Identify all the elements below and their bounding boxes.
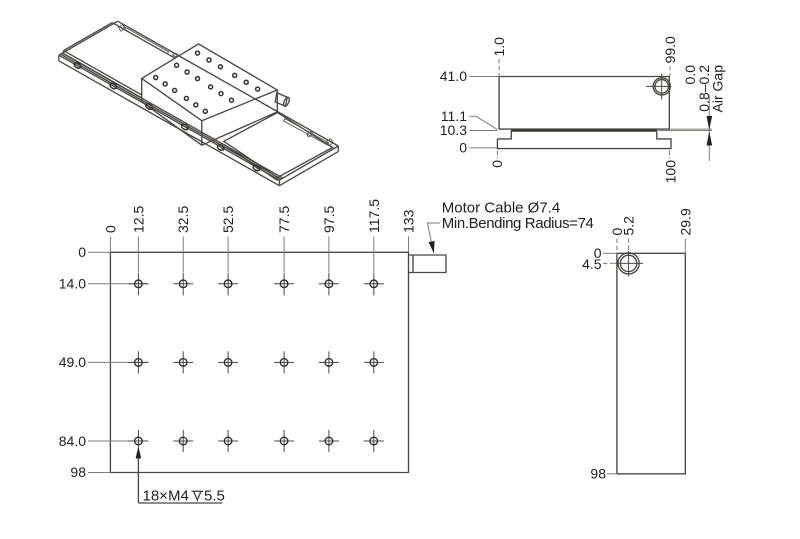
rail screw 4 <box>181 123 190 131</box>
cable circle inner <box>620 255 636 271</box>
svg-text:41.0: 41.0 <box>440 68 467 84</box>
plan hole col 32.5 row 14 <box>182 273 184 296</box>
forcer top hole c97.5 r14 <box>244 80 248 84</box>
right plate corner notch <box>326 139 333 146</box>
forcer top hole c52.5 r84 <box>173 88 177 92</box>
svg-text:1.0: 1.0 <box>491 37 507 57</box>
svg-text:0: 0 <box>489 160 505 168</box>
rail: right end top edge <box>279 146 338 180</box>
plan hole col 52.5 row 14 <box>227 273 229 296</box>
forcer top hole c52.5 r49 <box>196 77 200 81</box>
plan hole col 117.5 row 49 <box>373 351 375 373</box>
svg-text:29.9: 29.9 <box>677 208 693 235</box>
forcer top hole c117.5 r49 <box>230 98 234 102</box>
plan hole col 97.5 row 14 <box>328 273 330 296</box>
forcer top hole c32.5 r14 <box>207 58 211 62</box>
svg-text:52.5: 52.5 <box>220 206 236 233</box>
svg-text:0: 0 <box>102 225 118 233</box>
forcer top hole c32.5 r84 <box>163 82 167 86</box>
right cover plate corner vertical <box>277 178 279 181</box>
left plate corner vertical <box>63 51 65 54</box>
svg-text:98: 98 <box>590 466 606 482</box>
plan hole col 97.5 row 84 <box>328 430 330 452</box>
plan hole col 117.5 row 84 <box>373 430 375 452</box>
plan hole col 52.5 row 84 <box>227 430 229 452</box>
svg-text:77.5: 77.5 <box>276 206 292 233</box>
plan hole col 97.5 row 49 <box>328 351 330 373</box>
cable exit tab <box>409 255 447 273</box>
cable cross-section double circle <box>653 78 670 95</box>
plan hole col 32.5 row 84 <box>182 430 184 452</box>
left cover plate front thickness edge <box>64 54 142 98</box>
plan hole col 52.5 row 49 <box>227 351 229 373</box>
forcer top hole c117.5 r84 <box>203 109 207 113</box>
18xM4 depth 5.5 annotation <box>136 446 142 458</box>
magnet top surface thick line <box>511 129 657 132</box>
svg-text:5.2: 5.2 <box>621 216 637 236</box>
svg-text:5.5: 5.5 <box>204 487 225 504</box>
rail: left end front vertical <box>58 55 60 61</box>
forcer rectangle <box>499 77 669 130</box>
rail: left end top edge <box>59 21 118 55</box>
cable leader arrow <box>429 241 435 254</box>
svg-text:12.5: 12.5 <box>130 206 146 233</box>
svg-text:133: 133 <box>401 209 417 233</box>
rail: right end front vertical <box>278 180 280 186</box>
svg-text:100: 100 <box>663 160 679 184</box>
cable crosshair v <box>628 251 630 276</box>
cable tab inner line <box>412 255 414 273</box>
plan hole col 77.5 row 14 <box>283 273 285 296</box>
plan hole col 77.5 row 49 <box>283 351 285 373</box>
plan hole col 32.5 row 49 <box>182 351 184 373</box>
svg-text:97.5: 97.5 <box>321 206 337 233</box>
forcer outline plan <box>110 252 408 472</box>
rail screw 2 <box>109 82 118 90</box>
plan hole col 12.5 row 49 <box>137 351 139 373</box>
plan hole col 12.5 row 84 <box>137 430 139 452</box>
end view <box>582 208 693 482</box>
forcer block top front-left edge <box>142 78 202 120</box>
forcer top hole c12.5 r14 <box>196 51 200 55</box>
rail: back top edge <box>118 21 339 146</box>
svg-text:0: 0 <box>459 140 467 156</box>
air gap arrow upper <box>707 116 713 130</box>
svg-text:84.0: 84.0 <box>59 433 86 449</box>
svg-text:0: 0 <box>78 244 86 260</box>
magnet track profile <box>497 131 671 149</box>
svg-text:18×M4: 18×M4 <box>143 487 189 504</box>
guide rail strip line 1 <box>61 54 282 179</box>
cable leader line <box>427 223 440 253</box>
forcer top edge notch <box>173 53 179 57</box>
svg-text:99.0: 99.0 <box>662 36 678 63</box>
svg-text:98: 98 <box>70 464 86 480</box>
left cover plate left edge <box>64 23 113 51</box>
svg-text:117.5: 117.5 <box>366 199 382 233</box>
plan hole col 12.5 row 14 <box>137 273 139 296</box>
rail: right end bottom edge <box>279 152 338 186</box>
side elevation view <box>440 36 726 183</box>
forcer block silhouette <box>142 44 278 145</box>
forcer top hole c117.5 r14 <box>256 87 260 91</box>
forcer block front corner vertical <box>201 121 203 146</box>
cable crosshair h <box>615 262 643 264</box>
svg-text:10.3: 10.3 <box>440 122 467 138</box>
forcer top hole c32.5 r49 <box>185 70 189 74</box>
left cover plate back edge <box>112 23 175 59</box>
svg-text:14.0: 14.0 <box>59 276 86 292</box>
air gap annotation <box>670 128 712 130</box>
forcer block top front-right edge <box>202 90 277 121</box>
left plate corner notch <box>118 25 125 32</box>
plan hole col 77.5 row 84 <box>283 430 285 452</box>
rail screw 5 <box>216 144 225 152</box>
plan hole col 117.5 row 14 <box>373 273 375 296</box>
isometric 3D view of linear motor stage <box>59 21 339 186</box>
rail screw 1 <box>73 62 82 70</box>
rail screw 6 <box>252 164 261 172</box>
leader 11.1 <box>470 116 498 129</box>
left cover plate front top edge <box>64 51 142 95</box>
rail screw 3 <box>145 103 154 111</box>
rail: right back vertical <box>337 146 339 152</box>
plan view of forcer <box>59 199 594 505</box>
left plate clamp slot <box>123 27 169 54</box>
air gap arrow lower <box>707 131 713 145</box>
cable stub cylinder <box>275 93 287 107</box>
right plate clamp slot <box>283 119 329 146</box>
right cover plate front thickness edge <box>224 144 278 180</box>
forcer top hole c97.5 r84 <box>194 103 198 107</box>
cable grommet outer circle <box>618 253 639 274</box>
forcer top hole c97.5 r49 <box>219 92 223 96</box>
forcer top hole c77.5 r84 <box>184 96 188 100</box>
forcer top hole c77.5 r14 <box>233 73 237 77</box>
right plate mid notch <box>307 131 313 137</box>
svg-text:Air Gap: Air Gap <box>710 65 726 113</box>
svg-text:49.0: 49.0 <box>59 354 86 370</box>
forcer top hole c77.5 r49 <box>209 85 213 89</box>
forcer top hole c52.5 r14 <box>218 65 222 69</box>
right cover plate top face <box>224 113 333 178</box>
svg-text:32.5: 32.5 <box>175 206 191 233</box>
svg-text:Min.Bending Radius=74: Min.Bending Radius=74 <box>442 215 594 232</box>
end view outline <box>617 253 685 473</box>
forcer top hole c12.5 r49 <box>175 63 179 67</box>
svg-text:4.5: 4.5 <box>582 256 602 272</box>
guide rail strip line 2 <box>62 53 283 178</box>
forcer top hole c12.5 r84 <box>154 76 158 80</box>
svg-text:Motor Cable Ø7.4: Motor Cable Ø7.4 <box>442 199 560 216</box>
rail: base front bottom edge <box>59 61 280 186</box>
rail: base front top edge <box>59 55 280 180</box>
